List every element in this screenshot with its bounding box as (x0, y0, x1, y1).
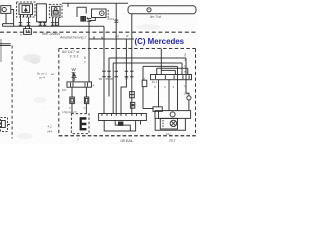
svg-text:1du: 1du (166, 132, 171, 136)
svg-text:3R: 3R (125, 76, 129, 80)
svg-text:fahr. Anlaßs.: fahr. Anlaßs. (42, 32, 61, 36)
svg-text:o,4: o,4 (69, 106, 73, 110)
svg-text:16,1: 16,1 (169, 138, 176, 142)
svg-text:05: 05 (106, 77, 110, 81)
svg-text:?: ? (77, 138, 79, 142)
svg-text:08 EAL.: 08 EAL. (121, 139, 135, 143)
svg-text:V: V (164, 85, 166, 89)
svg-text:247a: 247a (108, 17, 115, 21)
svg-text:lim Tvd: lim Tvd (150, 15, 161, 19)
svg-text:co-4: co-4 (39, 75, 45, 79)
svg-text:05: 05 (110, 77, 114, 81)
svg-text:2gl: 2gl (114, 34, 119, 38)
svg-text:(C) Mercedes: (C) Mercedes (135, 37, 185, 46)
svg-text:W: W (72, 67, 77, 72)
svg-text:V 3-1: V 3-1 (70, 55, 79, 59)
svg-text:Anlaßsicherung 2: Anlaßsicherung 2 (59, 36, 87, 40)
svg-text:1,5R: 1,5R (184, 92, 190, 96)
svg-text:3R: 3R (99, 77, 103, 81)
svg-text:aL: aL (51, 72, 55, 76)
svg-text:gl: gl (126, 33, 129, 37)
svg-text:6ß D17 st: 6ß D17 st (62, 49, 80, 54)
svg-text:244: 244 (46, 130, 52, 134)
svg-text:1,5gn/ws 2,5: 1,5gn/ws 2,5 (62, 110, 77, 114)
svg-text:S: S (154, 85, 156, 89)
svg-text:16v: 16v (62, 88, 67, 92)
svg-text:o,4: o,4 (83, 106, 87, 110)
svg-text:7: 7 (84, 60, 86, 64)
svg-text:B: B (143, 76, 145, 80)
svg-text:D+1: D+1 (152, 80, 158, 84)
svg-text:4.2: 4.2 (48, 125, 53, 129)
